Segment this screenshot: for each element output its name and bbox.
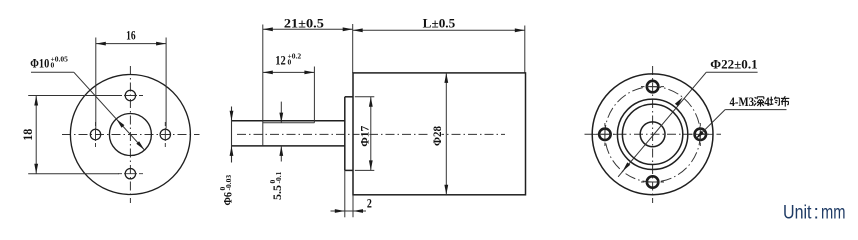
svg-text:Unit: Unit (783, 201, 812, 223)
svg-text:L±0.5: L±0.5 (423, 17, 456, 31)
svg-text:Φ17: Φ17 (359, 126, 371, 147)
svg-text:Φ6: Φ6 (220, 192, 234, 206)
svg-text:0: 0 (51, 61, 55, 70)
svg-text:21±0.5: 21±0.5 (284, 17, 324, 31)
svg-text:mm: mm (821, 201, 846, 223)
svg-text:12: 12 (275, 54, 286, 68)
svg-text:Φ22±0.1: Φ22±0.1 (710, 57, 757, 71)
svg-text:Φ10: Φ10 (30, 57, 49, 71)
svg-text:18: 18 (21, 129, 35, 141)
svg-text:Φ28: Φ28 (432, 126, 444, 146)
svg-text::: : (814, 201, 819, 223)
svg-text:4-M3: 4-M3 (730, 95, 755, 109)
svg-text:16: 16 (126, 29, 136, 43)
svg-text:-0.1: -0.1 (274, 171, 283, 183)
svg-text:2: 2 (367, 197, 372, 211)
svg-text:0: 0 (288, 58, 292, 67)
svg-text:-0.03: -0.03 (224, 175, 233, 191)
svg-text:5.5: 5.5 (270, 185, 284, 200)
svg-text:4: 4 (764, 95, 770, 109)
